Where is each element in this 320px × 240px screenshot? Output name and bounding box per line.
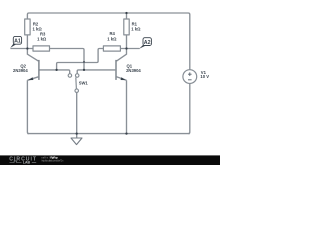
svg-text:A1: A1 [14,39,21,45]
svg-text:1 kΩ: 1 kΩ [37,37,47,42]
transistor Q1 (2N3904, NPN) [115,49,126,81]
svg-text:1 kΩ: 1 kΩ [107,37,117,42]
watermark logo CIRCUIT LAB [9,157,37,165]
label R4 value [107,31,117,41]
probe A1 [10,36,21,48]
label Q1 [126,64,141,74]
svg-text:2N3904: 2N3904 [126,68,141,73]
probe A2 [139,38,151,49]
wire V1 bottom to rail [188,84,190,134]
resistor R3 [33,46,50,51]
svg-text:SW1: SW1 [79,81,89,86]
wire switch right throw to Q1 base [77,70,115,74]
svg-text:A2: A2 [144,40,151,46]
svg-text:http://circuitlab.com/c6er72n: http://circuitlab.com/c6er72n [42,159,64,162]
label R2 value [33,21,43,31]
wire crossing hop [83,61,85,63]
svg-text:10 V: 10 V [200,74,209,79]
ground [71,134,82,145]
junction node A1 (Q2 collector) [26,47,28,49]
svg-text:LAB: LAB [23,161,31,165]
voltage source V1 [183,70,197,84]
label Q2 [13,64,28,73]
label V1 value [200,70,209,79]
junction node on top rail at R1 [125,12,127,14]
junction node Q1 base tap [83,69,85,71]
svg-text:2N3904: 2N3904 [13,68,28,73]
junction node ground/switch on rail [76,132,78,134]
label R3 value [37,32,47,42]
label R1 value [131,21,141,31]
junction node Q2 base tap [55,69,57,71]
wire Q2 base segment to switch left throw [39,70,69,74]
svg-text:1 kΩ: 1 kΩ [131,26,141,31]
wire R2 bottom to node A1 [26,35,28,49]
transistor Q2 (2N3904, mirrored NPN) [27,49,39,81]
junction node Q1 emitter on rail [125,132,127,134]
wire R4 left via cross wire to Q2 base [57,49,104,70]
wire node A2 probe stub [120,48,139,50]
wire node A1 probe stub [10,48,33,50]
svg-text:1 kΩ: 1 kΩ [33,26,43,31]
junction node A2 (Q1 collector) [125,47,127,49]
wire Q2 emitter to bottom rail [27,80,29,133]
wire R3 right to Q1 base column [50,49,85,70]
svg-text:R4: R4 [110,31,116,36]
switch SW1 (SPDT) [68,74,79,93]
wire Q1 emitter to bottom rail [126,80,128,133]
wire R1 bottom to Q1 collector node [126,35,128,49]
resistor R1 [124,19,129,35]
wire switch common to bottom rail [76,92,78,133]
wire R1 top stub [126,13,128,19]
wire top rail (V+) [27,13,189,70]
resistor R4 [103,46,120,51]
wire bottom rail [27,133,189,135]
resistor R2 [25,19,30,35]
watermark bar [0,155,220,165]
